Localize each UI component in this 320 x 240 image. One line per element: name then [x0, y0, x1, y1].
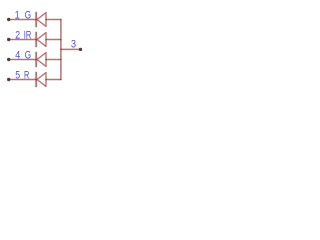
svg-text:2: 2	[15, 30, 20, 42]
svg-text:R: R	[24, 69, 29, 81]
wire D2 anode to bus	[46, 39, 61, 41]
diode D1 triangle	[37, 13, 46, 27]
net 3 common-anode vertical bus wire	[60, 20, 62, 80]
diode D4 cathode bar	[35, 73, 37, 87]
pin 2 wire/line	[9, 39, 36, 41]
pin 2 endpoint dot	[7, 38, 10, 41]
pin 3 wire/line	[61, 48, 81, 50]
wire D1 anode to bus	[46, 19, 61, 21]
diode D4 triangle	[37, 73, 46, 87]
diode D2 triangle	[37, 33, 46, 47]
diode D2 cathode bar	[35, 33, 37, 47]
svg-text:G: G	[25, 9, 31, 21]
wire D4 anode to bus	[46, 79, 61, 81]
svg-text:IR: IR	[24, 28, 32, 41]
pin 4 endpoint dot	[7, 58, 10, 61]
svg-text:4: 4	[15, 50, 20, 62]
svg-text:1: 1	[15, 10, 20, 22]
svg-text:5: 5	[15, 70, 20, 82]
pin 3 endpoint dot	[79, 48, 82, 51]
diode D1 cathode bar	[35, 13, 37, 27]
pin 1 wire/line	[9, 19, 36, 21]
diode D3 triangle	[37, 53, 46, 67]
diode D3 cathode bar	[35, 53, 37, 67]
pin 1 endpoint dot	[7, 18, 10, 21]
wire D3 anode to bus	[46, 59, 61, 61]
pin 5 endpoint dot	[7, 78, 10, 81]
svg-text:3: 3	[71, 39, 76, 51]
pin 4 wire/line	[9, 59, 36, 61]
svg-text:G: G	[25, 49, 31, 61]
pin 5 wire/line	[9, 79, 36, 81]
